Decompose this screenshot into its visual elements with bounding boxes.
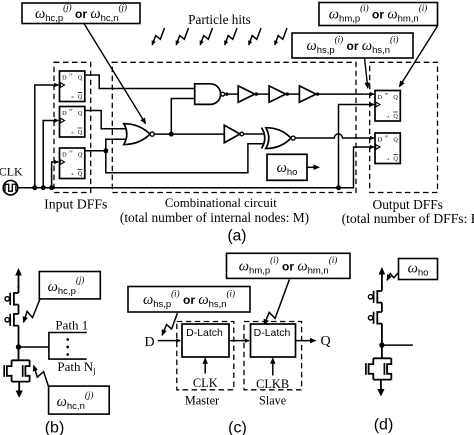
master D-latch <box>182 324 229 357</box>
svg-text:Combinational circuit: Combinational circuit <box>165 196 277 210</box>
dashed box Master <box>177 322 234 390</box>
wire NAND output to buffer chain <box>225 93 239 95</box>
slave D-latch <box>251 324 296 357</box>
node NAND output <box>225 92 228 95</box>
svg-text:(total number of DFFs: B): (total number of DFFs: B) <box>342 211 474 227</box>
svg-text:Particle hits: Particle hits <box>188 12 251 27</box>
node FF3 output junction <box>103 148 108 153</box>
text CLK <box>0 165 23 179</box>
svg-text:Path 1: Path 1 <box>55 318 88 333</box>
text CLKB (c) <box>256 377 289 391</box>
svg-text:CLK: CLK <box>0 165 23 179</box>
svg-text:(c): (c) <box>228 420 247 435</box>
text D (c) <box>144 335 154 350</box>
node clk junction 3 <box>49 185 54 190</box>
arrow out of omega_ho box <box>307 166 319 168</box>
text Path 1 <box>55 318 88 333</box>
wire B1 to B2 <box>255 93 269 95</box>
wire B2 to B3 <box>286 93 300 95</box>
bolt omega_hs to D input (c) <box>162 313 177 335</box>
wire FF3 Q to node <box>85 150 106 152</box>
text Slave <box>259 394 286 408</box>
wire B3 to output DFF1 D <box>316 93 374 95</box>
nmos pair (d) <box>366 358 391 379</box>
pmos MP2 (b) <box>5 305 19 326</box>
path bracket (b) <box>49 333 87 360</box>
wire NOR output to inverter <box>154 133 224 135</box>
text Combinational circuit <box>165 196 277 210</box>
node clk junction 1 <box>32 185 37 190</box>
node NOR output junction <box>169 132 174 137</box>
text caption (a) <box>228 228 247 245</box>
label box omega_hs (c) <box>128 287 250 313</box>
label box omega_hc <box>22 3 140 25</box>
wire FF1 Q to NAND input 1 <box>85 75 195 89</box>
text Input DFFs <box>44 197 107 212</box>
bolt omega_ho to rail (d) <box>387 272 398 280</box>
nmos pair (b) <box>4 360 29 381</box>
text total number of DFFs <box>342 211 474 227</box>
NOR gate <box>124 124 154 145</box>
pmos MP1 (d) <box>368 286 382 303</box>
svg-text:(d): (d) <box>374 417 394 434</box>
svg-text:CLK: CLK <box>193 376 218 390</box>
pmos MP1 (b) <box>5 286 19 305</box>
NAND gate <box>195 84 225 105</box>
node output (d) <box>379 342 384 347</box>
particle hit bolts <box>152 28 287 45</box>
label box omega_hm (a) <box>319 3 438 26</box>
output DFF O1 <box>375 91 400 122</box>
text caption (b) <box>45 420 65 435</box>
node output (b) <box>16 344 21 349</box>
wire clk to output DFF2 <box>339 147 375 188</box>
svg-text:Master: Master <box>185 394 220 408</box>
buffer B1 <box>238 86 255 102</box>
node B3 output <box>316 92 319 95</box>
wire to output node (b) <box>18 326 20 361</box>
wire slave to Q <box>296 340 316 342</box>
box omega_ho (a) <box>267 154 307 180</box>
wire node stub (d) <box>382 344 413 346</box>
svg-text:Slave: Slave <box>259 394 286 408</box>
input DFF FF2 <box>60 107 85 138</box>
wire node to XNOR input 2 (feedback run) <box>106 144 265 173</box>
dashed box: Combinational circuit group <box>112 62 356 192</box>
wire node to path bracket (b) <box>19 346 49 348</box>
CLK source <box>3 180 18 195</box>
wire clk to FF1 <box>35 85 59 188</box>
GND arrow (b) <box>16 382 23 398</box>
wire master to slave <box>229 340 249 342</box>
svg-text:(total number of internal node: (total number of internal nodes: M) <box>120 210 309 225</box>
wire clk to output DFF1 <box>339 105 375 188</box>
svg-text:(b): (b) <box>45 420 65 435</box>
text caption (d) <box>374 417 394 434</box>
dots vertical ellipsis (b) <box>66 338 69 356</box>
arrow from omega_hc box to NOR gate <box>84 24 146 124</box>
text Path Nj <box>57 359 95 376</box>
input DFF FF3 <box>60 148 85 179</box>
bolt omega_hm to slave latch (c) <box>264 280 289 325</box>
arrow from omega_hm box to output DFF1 <box>400 26 438 87</box>
svg-text:Input DFFs: Input DFFs <box>44 197 107 212</box>
wire clk to FF2 <box>43 121 58 188</box>
input DFF FF1 <box>60 71 85 102</box>
output DFF O2 <box>375 133 400 164</box>
dashed box: Input DFFs group <box>54 62 91 192</box>
GND arrow (d) <box>377 380 384 397</box>
text caption (c) <box>228 420 247 435</box>
wire D to master latch <box>158 340 181 342</box>
arrow from omega_hs box to D net of output DFF1 <box>365 58 368 88</box>
wire CLK bus <box>18 187 339 189</box>
text CLK (c) <box>193 376 218 390</box>
svg-text:D-Latch: D-Latch <box>254 327 291 339</box>
VDD arrow (b) <box>15 268 22 288</box>
label box omega_hc_p (b) <box>39 272 100 299</box>
XNOR gate <box>262 128 296 149</box>
bolt omega_hc_p to PMOS (b) <box>24 299 40 322</box>
svg-text:Q: Q <box>320 334 330 349</box>
text total number of internal nodes <box>120 210 309 225</box>
svg-text:D: D <box>144 335 154 350</box>
VDD arrow (d) <box>379 267 386 288</box>
wire clk to FF3 <box>52 162 59 188</box>
wire inverter to XNOR input 1 <box>244 133 265 135</box>
label box omega_hs (a) <box>292 33 413 58</box>
CLKB arrow into slave <box>272 358 274 375</box>
label box omega_hc_n (b) <box>49 386 110 414</box>
wire to node (d) <box>381 324 383 359</box>
pmos MP2 (d) <box>368 303 382 324</box>
label box omega_hm (c) <box>227 253 351 278</box>
bolt omega_hc_n to NMOS (b) <box>34 366 49 387</box>
node clk junction 2 <box>41 185 46 190</box>
wire node to NOR input 2 <box>106 139 126 151</box>
svg-text:(a): (a) <box>228 228 247 245</box>
text Master <box>185 394 220 408</box>
wire XNOR output to output DFF2 D (hops clock line) <box>295 134 374 138</box>
text Particle hits <box>188 12 251 27</box>
svg-text:D-Latch: D-Latch <box>186 327 223 339</box>
node B2 output <box>286 92 289 95</box>
CLK arrow into master <box>204 358 206 373</box>
buffer B2 <box>269 86 286 102</box>
label box omega_ho (d) <box>399 259 438 280</box>
wire FF2 Q to NOR input 1 <box>85 111 126 129</box>
text Output DFFs <box>373 197 443 212</box>
svg-text:Output DFFs: Output DFFs <box>373 197 443 212</box>
dashed box: Output DFFs group <box>370 62 438 192</box>
node B1 output <box>255 92 258 95</box>
dashed box Slave <box>244 322 302 390</box>
node clk junction at output side <box>336 185 341 190</box>
inverter I1 <box>224 125 243 143</box>
buffer B3 <box>299 86 316 102</box>
svg-text:Path Nj: Path Nj <box>57 359 95 376</box>
svg-text:CLKB: CLKB <box>256 377 289 391</box>
wire junction to NAND input 2 <box>171 99 194 135</box>
text Q (c) <box>320 334 330 349</box>
